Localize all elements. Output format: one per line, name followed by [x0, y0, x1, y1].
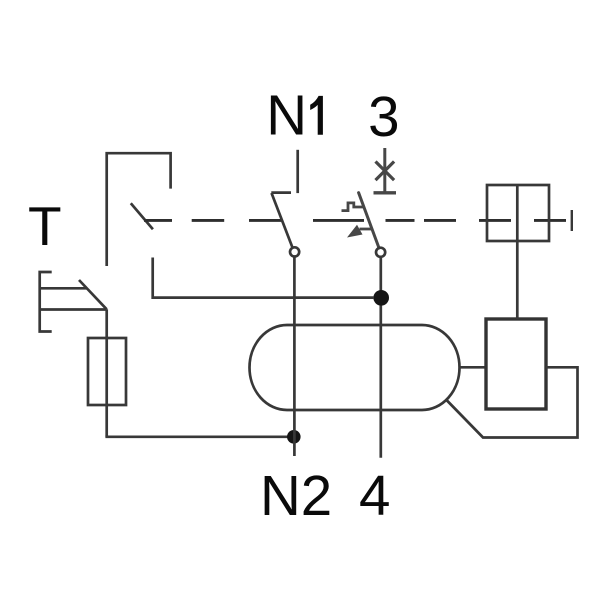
label N1 digit 1 [310, 96, 323, 135]
breaker 3 pivot circle [376, 248, 385, 257]
svg-text:4: 4 [359, 464, 390, 527]
relay / trip coil block [487, 185, 549, 241]
contact N1 stem [296, 150, 299, 193]
svg-text:N2: N2 [260, 464, 332, 527]
breaker 3 latch zigzag [342, 203, 365, 211]
breaker 3 trip arrow shaft [360, 228, 373, 231]
relay divider [516, 185, 519, 241]
wire: toroid secondary to amplifier [459, 366, 486, 369]
contact N1 fixed bar [271, 191, 291, 194]
test button upper contact rail [40, 287, 87, 290]
junction dot on N2 wire [287, 430, 301, 444]
wire: switch S1 lower terminal to phase junction [153, 258, 374, 298]
junction dot on phase wire [373, 290, 389, 306]
wire: test button through resistor to junction [105, 309, 108, 437]
breaker 3 trip arrowhead [347, 225, 363, 238]
test button blade [79, 280, 107, 309]
linkage end tick [571, 210, 573, 231]
switch S1 blade [131, 203, 153, 229]
mechanical linkage dash 8 [534, 219, 566, 222]
svg-text:T: T [28, 195, 62, 257]
wire: relay to amplifier [516, 241, 519, 319]
wire phase vertical to terminal 4 [379, 257, 382, 458]
mechanical linkage dash 2 [192, 219, 225, 222]
amplifier block [486, 319, 546, 409]
wire: amplifier output loop to toroid [446, 367, 578, 437]
mechanical linkage dash 4 [313, 219, 364, 222]
breaker 3 fixed bar [374, 191, 397, 194]
svg-text:3: 3 [368, 85, 399, 148]
test button T bracket [40, 272, 52, 332]
contact N1 pivot circle [290, 247, 299, 256]
wire N2 vertical through toroid [293, 257, 296, 456]
mechanical linkage dash 3 [249, 219, 283, 222]
breaker 3 stem [383, 148, 386, 193]
mechanical linkage dash 6 [424, 219, 456, 222]
breaker 3 blade [359, 193, 379, 248]
contact N1 blade [272, 193, 293, 248]
current transformer toroid [250, 325, 460, 410]
wire: mechanism bracket from switch S1 [107, 153, 171, 266]
svg-text:N: N [266, 84, 307, 147]
mechanical linkage dash 5 [386, 219, 415, 222]
mechanical linkage dash 1 [144, 219, 172, 222]
wire: to junction N2 [105, 435, 290, 438]
breaker 3 X mark [376, 162, 395, 181]
mechanical linkage dash 7 [479, 219, 511, 222]
test button lower rail [40, 308, 106, 311]
resistor R (test resistor) [88, 338, 126, 405]
